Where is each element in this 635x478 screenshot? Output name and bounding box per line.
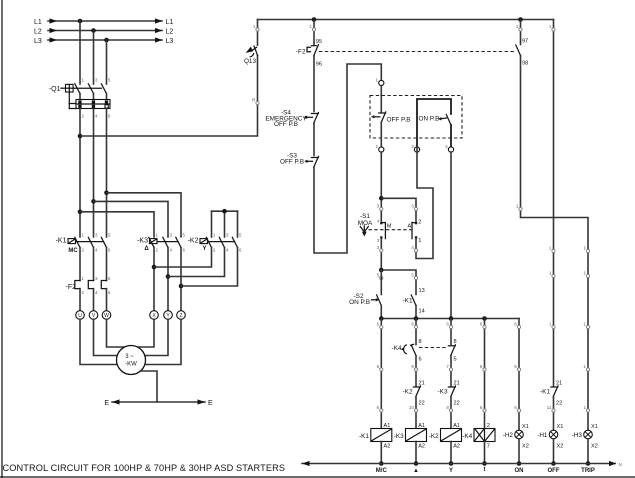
pin circle wire1 left <box>309 24 315 31</box>
control bus <box>381 318 519 320</box>
wire W to motor <box>107 319 125 347</box>
wire V to motor <box>94 319 118 355</box>
svg-text:3: 3 <box>377 238 380 243</box>
node bus trip branch <box>518 17 523 22</box>
wire F2 97-98 to trip lamp <box>521 56 589 431</box>
svg-text:-K3: -K3 <box>137 238 148 245</box>
svg-text:5: 5 <box>239 232 242 237</box>
node Y link <box>166 274 171 279</box>
svg-text:E: E <box>104 400 109 407</box>
overload F2 heater1 <box>75 281 80 289</box>
wire U to motor <box>80 319 117 364</box>
wire K3 coil to rail <box>415 442 417 464</box>
svg-text:-K2: -K2 <box>429 433 439 440</box>
wire L3 to Q1 pole3 <box>106 40 108 84</box>
svg-text:M/C: M/C <box>376 468 388 474</box>
wire K1 pole2 to F2 <box>93 248 95 281</box>
svg-text:-Q1: -Q1 <box>49 86 61 93</box>
selector S1 handle symbol <box>360 226 368 237</box>
node W tap <box>104 191 109 196</box>
node bus S2 <box>379 316 384 321</box>
svg-text:1: 1 <box>583 405 586 410</box>
svg-text:X2: X2 <box>591 444 598 450</box>
timed contact K4 NC <box>392 344 416 355</box>
svg-text:1: 1 <box>549 322 552 327</box>
coil K1 <box>359 423 392 450</box>
wire L1 to Q1 pole1 <box>79 21 81 84</box>
svg-text:1: 1 <box>516 24 519 29</box>
pin circle trip mid <box>516 204 522 211</box>
motor terminal Z <box>177 311 186 320</box>
lamp H1 OFF <box>537 424 563 450</box>
svg-text:ON P.B: ON P.B <box>349 299 370 306</box>
svg-text:W: W <box>104 313 109 319</box>
wire S4 to S3 <box>313 123 315 155</box>
svg-text:Δ: Δ <box>144 246 149 252</box>
svg-text:A2: A2 <box>453 444 460 450</box>
feeder L3 <box>34 37 173 44</box>
svg-text:1: 1 <box>82 78 85 83</box>
wire bus to timer coil <box>484 319 486 429</box>
svg-text:22: 22 <box>454 401 460 407</box>
contactor K2 pole1 <box>206 237 211 247</box>
node L1 tap <box>78 19 83 24</box>
svg-text:ON: ON <box>515 468 524 474</box>
wire bus corner to ON lamp <box>518 319 520 431</box>
lamp H3 TRIP <box>572 424 598 450</box>
wire K4 to K2 contact <box>415 356 417 387</box>
svg-text:L2: L2 <box>166 28 174 35</box>
wire bus to F2 contact <box>313 20 315 45</box>
svg-text:-K1: -K1 <box>540 389 550 396</box>
svg-text:5: 5 <box>183 232 186 237</box>
svg-text:9: 9 <box>411 364 414 369</box>
dashed link K4 contacts <box>419 347 446 349</box>
svg-text:3: 3 <box>377 204 380 209</box>
wire Q1 pole2 to K1 pole2 <box>93 109 95 238</box>
terminal plug X1-1 <box>376 78 384 86</box>
wire node to K1 aux branch <box>381 270 416 295</box>
pin circle branch delta top <box>411 322 417 329</box>
pin circle wire3 M <box>377 204 383 211</box>
svg-text:1: 1 <box>309 24 312 29</box>
wire tap to K3 pole2 <box>94 201 169 237</box>
svg-text:6: 6 <box>377 364 380 369</box>
svg-text:OFF P.B: OFF P.B <box>280 158 304 165</box>
wire X link to K2 pole1 <box>154 248 212 268</box>
svg-text:-K1: -K1 <box>359 433 369 440</box>
breaker Q1 pole2 contact <box>88 84 93 100</box>
contactor K1 linkage <box>76 241 104 243</box>
svg-text:6: 6 <box>411 322 414 327</box>
svg-text:21: 21 <box>419 381 425 387</box>
terminal plug X1-2 <box>376 144 384 152</box>
svg-text:5: 5 <box>454 357 457 363</box>
svg-text:3: 3 <box>95 232 98 237</box>
svg-text:-H1: -H1 <box>537 432 548 439</box>
svg-text:ON P.B: ON P.B <box>419 116 440 123</box>
svg-text:OFF P.B: OFF P.B <box>274 121 298 128</box>
svg-text:A: A <box>407 223 411 229</box>
sheet border bottom <box>0 476 635 478</box>
pin circles branch TRIP <box>583 246 589 413</box>
pin circle wire5 left <box>377 273 383 280</box>
contactor K2 star bridge <box>212 211 238 237</box>
pin circle wire10 <box>409 405 418 412</box>
contact K2 21-22 NC <box>403 386 421 397</box>
wire Z link to K2 pole3 <box>181 248 238 287</box>
svg-text:6: 6 <box>108 247 111 252</box>
svg-text:5: 5 <box>108 276 111 281</box>
terminal plug X1-3 <box>411 144 419 152</box>
contactor K1 pole1 <box>75 237 80 247</box>
svg-text:4: 4 <box>95 247 98 252</box>
earth line E <box>104 399 213 406</box>
breaker Q1 linkage <box>69 88 101 108</box>
wire plug to OFF P.B <box>380 86 382 112</box>
node rail TRIP <box>586 461 591 466</box>
svg-text:X1: X1 <box>591 424 598 430</box>
svg-text:3: 3 <box>377 245 380 250</box>
svg-text:22: 22 <box>556 401 562 407</box>
svg-text:L3: L3 <box>166 38 174 45</box>
svg-text:2: 2 <box>376 144 379 149</box>
node Z link <box>179 284 184 289</box>
svg-text:2: 2 <box>156 247 159 252</box>
wire selector feed to A branch <box>381 198 416 223</box>
wire K2 contact to K3 coil <box>415 397 417 429</box>
svg-text:M: M <box>387 223 392 229</box>
svg-text:11: 11 <box>547 405 552 410</box>
svg-text:5: 5 <box>108 232 111 237</box>
svg-text:X1: X1 <box>522 424 529 430</box>
node bus F2 branch <box>312 17 317 22</box>
selector S1 MOA labels <box>358 213 373 227</box>
wire bus to K4 contact right <box>450 319 452 345</box>
wire K1 coil to rail <box>380 442 382 464</box>
pushbutton S3 off <box>280 153 318 168</box>
lamp H2 ON <box>503 424 529 450</box>
breaker Q1 pole3 contact <box>101 84 106 100</box>
svg-text:1: 1 <box>583 322 586 327</box>
wire tap to K3 pole1 <box>80 212 154 237</box>
wire Q1 pole3 to K1 pole3 <box>106 109 108 238</box>
svg-text:-K3: -K3 <box>394 433 404 440</box>
wire Y to motor <box>145 319 168 355</box>
motor terminal V <box>89 311 98 320</box>
coil K2 <box>429 423 462 450</box>
wire S2 to bus <box>380 306 382 319</box>
pin circle trip top <box>516 24 522 31</box>
breaker Q1 trip unit box <box>76 100 110 109</box>
node bus K1aux <box>414 316 419 321</box>
svg-text:3: 3 <box>411 204 414 209</box>
svg-text:X1: X1 <box>557 424 564 430</box>
svg-text:E: E <box>208 400 213 407</box>
wire F2 to S4 <box>313 56 315 112</box>
pushbutton ON P.B remote <box>419 115 452 126</box>
motor terminal Y <box>164 311 173 320</box>
svg-text:A2: A2 <box>418 444 425 450</box>
pushbutton S2 on <box>349 293 381 306</box>
neutral rail N <box>302 461 622 467</box>
node rail Y <box>449 461 454 466</box>
svg-text:MC: MC <box>68 248 78 254</box>
wire K3 pole1 down <box>153 248 155 311</box>
svg-text:3: 3 <box>95 78 98 83</box>
svg-text:t: t <box>484 467 486 473</box>
contactor K3 pole3 <box>176 237 181 247</box>
wire S3 detour to OFF P.B <box>314 64 381 253</box>
contactor K3 pole2 <box>163 237 168 247</box>
pin circle wire4 A <box>411 245 417 252</box>
node star bridge mid <box>222 209 227 214</box>
wire A contact to ON P.B feed <box>416 147 433 259</box>
pin circle wire9 <box>411 364 417 371</box>
svg-text:1: 1 <box>376 78 379 83</box>
contactor K2 pole2 <box>219 237 224 247</box>
svg-text:6: 6 <box>239 247 242 252</box>
switch Q13 pin R <box>252 98 259 105</box>
svg-text:4: 4 <box>226 247 229 252</box>
svg-text:21: 21 <box>454 381 460 387</box>
node S2 branch <box>379 268 384 273</box>
svg-text:5: 5 <box>411 273 414 278</box>
overload F2 pin digits <box>82 276 112 295</box>
pin circle branch Y top <box>446 322 452 329</box>
svg-text:4: 4 <box>377 218 380 223</box>
svg-text:-H2: -H2 <box>503 432 514 439</box>
contactor K1 coil mini symbol <box>68 239 76 244</box>
svg-text:U: U <box>78 313 82 319</box>
contactor K3 coil mini symbol <box>150 239 158 244</box>
svg-text:Y: Y <box>202 246 206 252</box>
wire bus to F2 97-98 <box>520 20 522 45</box>
svg-text:6: 6 <box>514 405 517 410</box>
svg-text:-H3: -H3 <box>572 432 583 439</box>
node bus timer <box>482 316 487 321</box>
svg-text:6: 6 <box>183 247 186 252</box>
contactor K3 linkage <box>157 241 178 243</box>
pin circles branch t <box>480 322 486 413</box>
wire ON P.B feed <box>417 99 451 147</box>
wire Z to motor <box>145 319 181 364</box>
svg-text:3: 3 <box>95 276 98 281</box>
wire K1 pole1 to F2 <box>79 248 81 281</box>
wire top bus corner to K1 21-22 <box>553 20 555 387</box>
wire K1 pole3 to F2 <box>106 248 108 281</box>
motor terminal X <box>150 311 159 320</box>
node L3 tap <box>104 38 109 43</box>
contactor K2 linkage <box>208 241 235 243</box>
svg-text:-K3: -K3 <box>438 389 448 396</box>
svg-text:6: 6 <box>480 364 483 369</box>
svg-text:13: 13 <box>419 288 425 294</box>
wire F2 to terminal W <box>106 289 108 311</box>
svg-text:OFF P.B: OFF P.B <box>387 116 411 123</box>
node rail ON <box>517 461 522 466</box>
pin circle wire5 right <box>411 273 417 280</box>
motor terminal U <box>76 311 85 320</box>
svg-text:1: 1 <box>549 24 552 29</box>
contact K1 21-22 NC <box>540 386 558 397</box>
svg-text:N: N <box>619 462 622 467</box>
svg-text:8: 8 <box>419 339 422 345</box>
svg-text:-K4: -K4 <box>392 345 402 352</box>
pin circles branch M/C <box>377 322 383 413</box>
svg-text:4: 4 <box>445 144 448 149</box>
pin circle wire7 <box>446 364 452 371</box>
pin circle wire8 <box>446 405 452 412</box>
svg-text:3: 3 <box>226 232 229 237</box>
breaker Q1 actuator box <box>61 84 73 92</box>
mechanical dashed link F2 <box>319 51 514 53</box>
top control bus <box>258 19 554 21</box>
node rail t <box>482 461 487 466</box>
svg-text:-K1: -K1 <box>403 297 413 304</box>
wire F2 to terminal U <box>79 289 81 311</box>
svg-text:22: 22 <box>419 401 425 407</box>
pushbutton S4 emergency off <box>265 110 318 129</box>
svg-text:7: 7 <box>446 364 449 369</box>
svg-text:21: 21 <box>556 381 562 387</box>
svg-text:1: 1 <box>253 24 256 29</box>
svg-text:2: 2 <box>82 114 85 119</box>
wire H1 to rail <box>553 439 555 464</box>
node selector feed <box>379 196 384 201</box>
svg-text:▲: ▲ <box>413 468 419 474</box>
svg-text:6: 6 <box>446 322 449 327</box>
wire Y link to K2 pole2 <box>168 248 225 277</box>
wire OFF P.B to plug <box>380 123 382 147</box>
svg-text:1: 1 <box>418 238 421 244</box>
wire timer to rail <box>484 442 486 464</box>
feeder L2 <box>34 28 173 35</box>
contact K3 21-22 NC <box>438 386 456 397</box>
svg-text:-K2: -K2 <box>188 238 199 245</box>
wire bus to K4 contact <box>415 319 417 345</box>
svg-text:96: 96 <box>316 62 322 68</box>
svg-text:5: 5 <box>108 78 111 83</box>
svg-text:1: 1 <box>549 246 552 251</box>
wire K4 to K3 contact <box>450 356 452 387</box>
selector S1 contact A <box>407 222 417 239</box>
pin circles branch OFF <box>549 24 555 329</box>
node U tap <box>78 210 83 215</box>
svg-text:6: 6 <box>514 364 517 369</box>
svg-text:6: 6 <box>480 405 483 410</box>
svg-text:1: 1 <box>516 204 519 209</box>
node rail delta <box>414 461 419 466</box>
motor M1 <box>117 346 146 375</box>
contact K1 13-14 <box>403 288 425 315</box>
svg-text:L1: L1 <box>166 19 174 26</box>
svg-text:4: 4 <box>95 114 98 119</box>
node rail M/C <box>379 461 384 466</box>
contactor K3 pole1 <box>149 237 154 247</box>
svg-text:3: 3 <box>170 232 173 237</box>
svg-text:4: 4 <box>95 290 98 295</box>
svg-text:CONTROL CIRCUIT FOR 100HP &: CONTROL CIRCUIT FOR 100HP & 70HP & 30HP … <box>3 463 286 473</box>
contactor K1 pole2 <box>88 237 93 247</box>
svg-text:1: 1 <box>156 232 159 237</box>
pushbutton OFF P.B remote <box>371 112 410 123</box>
motor terminal W <box>102 311 111 320</box>
pin circle wire11 <box>547 405 555 412</box>
svg-text:6: 6 <box>377 405 380 410</box>
svg-text:L2: L2 <box>34 28 42 35</box>
wire L2 to Q1 pole2 <box>93 31 95 85</box>
svg-text:1: 1 <box>549 271 552 276</box>
svg-text:2: 2 <box>213 247 216 252</box>
svg-text:X2: X2 <box>557 444 564 450</box>
wire Q1 pole1 to K1 pole1 <box>79 109 81 238</box>
svg-text:-F2: -F2 <box>296 49 306 56</box>
svg-text:2: 2 <box>82 247 85 252</box>
svg-text:L3: L3 <box>34 38 42 45</box>
selector S1 contact M pins 4-3 <box>377 218 380 243</box>
selector S1 contact M <box>380 222 392 239</box>
svg-text:1: 1 <box>583 271 586 276</box>
overload F2 heater3 <box>101 281 106 289</box>
timer coil K4 <box>462 429 495 442</box>
node bus plug4 <box>449 316 454 321</box>
svg-text:-KW: -KW <box>125 361 137 367</box>
svg-text:10: 10 <box>409 405 414 410</box>
wire ON P.B to plug <box>450 125 452 147</box>
svg-text:14: 14 <box>419 309 425 315</box>
svg-text:MOA: MOA <box>358 220 373 227</box>
wire K3 pole2 down <box>167 248 169 311</box>
svg-text:2: 2 <box>82 290 85 295</box>
wire bus to K1 coil <box>380 319 382 429</box>
dashed remote pushbutton box <box>370 96 462 139</box>
switch Q13 pin 1 <box>253 24 259 31</box>
contactor K2 pole3 <box>232 237 237 247</box>
coil K3 <box>394 423 427 450</box>
terminal plug X1-4 <box>445 144 453 152</box>
svg-text:2: 2 <box>418 219 421 225</box>
pin circle wire3 A <box>411 204 417 211</box>
svg-text:X2: X2 <box>522 444 529 450</box>
svg-text:1: 1 <box>213 232 216 237</box>
wire motor to earth <box>141 371 157 402</box>
overload contact F2 97-98 NO <box>516 45 521 56</box>
svg-text:6: 6 <box>419 357 422 363</box>
svg-text:5: 5 <box>377 273 380 278</box>
breaker Q1 pole1 contact <box>75 84 80 100</box>
wire plug2 down to selector node <box>380 152 382 223</box>
node control tap <box>78 134 83 139</box>
svg-text:TRIP: TRIP <box>581 468 595 474</box>
overload F2 heater2 <box>88 281 93 289</box>
wire K1 21-22 to lamp H1 <box>553 397 555 430</box>
svg-text:98: 98 <box>522 61 528 67</box>
svg-text:-K2: -K2 <box>403 389 413 396</box>
svg-text:6: 6 <box>480 322 483 327</box>
svg-text:4: 4 <box>170 247 173 252</box>
svg-text:Y: Y <box>449 468 453 474</box>
wire X to motor <box>137 319 154 347</box>
node L2 tap <box>91 28 96 33</box>
svg-text:8: 8 <box>446 405 449 410</box>
wire H2 to rail <box>518 439 520 464</box>
svg-text:1: 1 <box>82 232 85 237</box>
svg-text:Z: Z <box>179 313 182 319</box>
wire H3 to rail <box>587 439 589 464</box>
pin circle wire3b <box>377 245 383 252</box>
feeder L1 <box>34 18 173 25</box>
